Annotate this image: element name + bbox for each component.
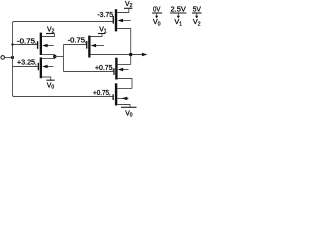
wire T5 drain to output node <box>118 64 131 66</box>
svg-text:-0.75: -0.75 <box>68 38 86 45</box>
wire top gate wire to T1 <box>13 22 113 24</box>
svg-text:-0.75: -0.75 <box>17 39 35 46</box>
transistor T6 gate bar <box>113 94 114 100</box>
legend bar 5V <box>192 12 202 14</box>
node input junction dot <box>11 56 14 59</box>
wire T6 drain <box>117 88 132 90</box>
wire node A stub right <box>55 56 64 58</box>
node output junction dot <box>129 53 132 56</box>
node A vertical link <box>54 55 56 59</box>
output arrowhead <box>142 53 148 56</box>
wire bottom gate wire to T6 <box>13 95 113 97</box>
wire T5 source down to T6 drain <box>118 79 132 89</box>
transistor T5 channel <box>115 58 117 80</box>
transistor T5 body arrow <box>120 69 129 71</box>
svg-text:V1: V1 <box>99 26 107 34</box>
terminal bar V0 bottom <box>121 106 137 108</box>
transistor T2 channel <box>40 33 42 55</box>
svg-text:V2: V2 <box>125 1 133 9</box>
svg-text:V2: V2 <box>47 26 55 34</box>
wire T1 source down to output node <box>117 29 131 65</box>
wire left bus vertical <box>12 23 14 96</box>
wire input to bus <box>5 57 13 59</box>
transistor T3 channel <box>40 57 42 78</box>
svg-text:+3.25: +3.25 <box>17 60 35 67</box>
terminal bar V2 left <box>46 33 55 35</box>
wire gate wire to T2 <box>13 44 37 46</box>
svg-text:5V: 5V <box>193 4 202 13</box>
svg-text:+0.75: +0.75 <box>93 90 109 97</box>
svg-text:0V: 0V <box>153 4 161 13</box>
wire T1 drain to V2 terminal <box>117 9 129 13</box>
wire T2 drain to V2 terminal <box>42 34 55 37</box>
transistor T6 body arrow <box>117 97 128 99</box>
node dot bus-T2 gate <box>11 43 13 45</box>
transistor T2 body arrow <box>44 45 54 47</box>
wire T2 source to node A <box>42 54 55 56</box>
wire T5 gate wire <box>64 71 114 73</box>
transistor T2 gate bar <box>37 41 38 49</box>
wire T6 source to V0 terminal <box>117 105 130 108</box>
svg-text:+0.75: +0.75 <box>95 65 113 72</box>
wire gate wire to T3 <box>13 66 38 68</box>
wire T4 source output line <box>91 54 144 56</box>
svg-text:V0: V0 <box>125 110 133 118</box>
input terminal circle <box>1 56 5 60</box>
transistor T5 gate bar <box>113 68 114 75</box>
wire node A vertical to gates <box>63 45 65 72</box>
svg-text:2.5V: 2.5V <box>171 4 187 13</box>
transistor T3 body arrow <box>44 66 54 68</box>
transistor T4 gate bar <box>86 41 87 49</box>
legend bar 0V <box>152 12 162 14</box>
terminal bar V0 left <box>46 79 54 81</box>
transistor T4 channel <box>88 36 90 58</box>
node A dot <box>53 55 56 58</box>
wire T4 gate wire <box>64 44 87 46</box>
transistor T3 gate bar <box>38 63 39 70</box>
transistor T1 gate bar <box>113 16 114 24</box>
legend arrow 5V <box>196 14 198 17</box>
terminal bar V2 top <box>124 7 132 9</box>
transistor T1 body arrow <box>120 20 131 22</box>
legend bar 2.5V <box>170 12 186 14</box>
legend arrow 0V <box>156 14 158 17</box>
transistor T4 body arrow <box>93 45 105 47</box>
terminal bar V1 <box>98 33 105 35</box>
wire T4 drain to V1 terminal <box>91 34 103 37</box>
legend arrow 2.5V <box>177 14 179 17</box>
wire T3 source to V0 terminal <box>42 77 51 80</box>
wire T3 drain to node A <box>42 58 55 60</box>
svg-text:V0: V0 <box>47 82 55 90</box>
transistor T6 channel <box>115 83 117 105</box>
svg-text:-3.75: -3.75 <box>97 12 113 19</box>
transistor T1 channel <box>115 9 117 31</box>
